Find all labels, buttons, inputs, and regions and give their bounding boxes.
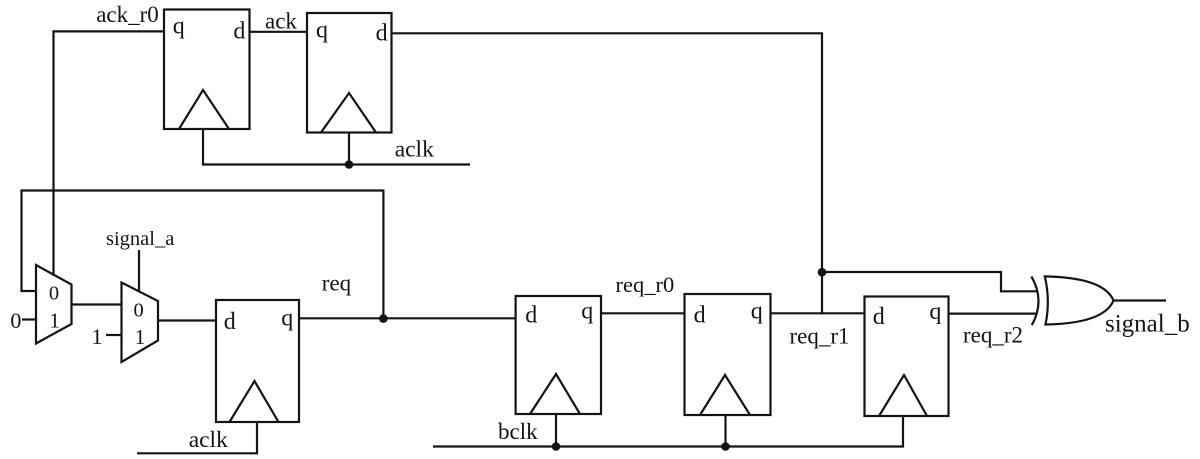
svg-text:1: 1 — [92, 324, 103, 349]
wire signal_b output — [1114, 299, 1167, 301]
svg-text:q: q — [173, 14, 185, 40]
svg-text:q: q — [751, 299, 763, 325]
gate X1 xor body — [1045, 276, 1114, 324]
svg-text:bclk: bclk — [498, 419, 538, 444]
mux M1 body — [36, 265, 72, 344]
wire req_r2 from U6.q to XOR input B — [949, 313, 1038, 315]
wire bclk line — [433, 416, 903, 447]
wire from U2.d right and down to req_r1 node — [392, 33, 823, 314]
node bclk junction dot 1 — [552, 442, 561, 451]
node bclk junction dot 2 — [721, 442, 730, 451]
flip-flop U1 ack_r0 box — [164, 10, 250, 130]
wire aclk bottom: U3 clock stub and line — [137, 422, 257, 453]
svg-text:ack: ack — [265, 9, 297, 34]
svg-text:d: d — [525, 303, 537, 329]
wire U5 clock stub — [724, 415, 726, 447]
flip-flop U3 req box — [216, 300, 299, 422]
svg-text:0: 0 — [49, 282, 59, 304]
svg-text:0: 0 — [10, 308, 21, 333]
svg-text:q: q — [929, 299, 941, 325]
flip-flop U2 clock triangle — [321, 93, 376, 133]
flip-flop U5 clock triangle — [700, 375, 750, 415]
svg-text:req_r1: req_r1 — [790, 323, 850, 348]
svg-text:ack_r0: ack_r0 — [96, 2, 159, 27]
svg-text:req: req — [322, 270, 352, 295]
svg-text:0: 0 — [134, 300, 144, 322]
wire U2 clock stub — [348, 133, 350, 165]
wire signal_a select into M2 — [138, 250, 140, 292]
svg-text:d: d — [233, 18, 245, 44]
svg-text:1: 1 — [135, 325, 146, 349]
svg-text:d: d — [224, 309, 236, 335]
svg-text:q: q — [581, 299, 593, 325]
svg-text:q: q — [281, 305, 293, 331]
gate X1 xor input arc — [1031, 276, 1038, 325]
wire constant 0 stub into M1 input 1 — [22, 318, 36, 320]
svg-text:q: q — [316, 18, 328, 44]
flip-flop U5 req_r1 box — [685, 294, 771, 415]
wire constant 1 stub into M2 input 1 — [106, 334, 122, 336]
svg-text:1: 1 — [49, 309, 60, 333]
svg-text:d: d — [694, 303, 706, 329]
wire ack_r0 from U1.q to mux M1 select — [54, 31, 165, 276]
wire req feedback loop to M1 input 0 — [22, 191, 384, 319]
flip-flop U6 req_r2 box — [865, 297, 949, 417]
wire req from U3.q to U4.d — [299, 317, 516, 319]
wire M1 output to M2 input 0 — [72, 303, 122, 305]
flip-flop U3 clock triangle — [230, 381, 279, 422]
flip-flop U4 clock triangle — [530, 374, 580, 414]
wire req_r0 from U4.q to U5.d — [601, 312, 685, 314]
node aclk junction dot — [345, 160, 354, 169]
svg-text:d: d — [376, 21, 388, 47]
svg-text:aclk: aclk — [189, 427, 228, 453]
mux M2 body — [122, 283, 159, 363]
wire U4 clock stub — [555, 414, 557, 447]
node junction req dot — [379, 314, 388, 323]
svg-text:signal_b: signal_b — [1105, 310, 1190, 337]
wire M2 output to U3.d — [158, 319, 216, 321]
svg-text:signal_a: signal_a — [106, 228, 174, 250]
flip-flop U6 clock triangle — [879, 375, 927, 416]
wire ack between U2.q and U1.d — [250, 31, 308, 33]
node junction req_r1 dot — [818, 268, 827, 277]
flip-flop U4 req_r0 box — [516, 296, 601, 414]
svg-text:d: d — [873, 304, 885, 330]
svg-text:req_r2: req_r2 — [963, 323, 1023, 348]
flip-flop U1 clock triangle — [179, 90, 229, 129]
wire aclk top: U1 clock down, horizontal aclk line — [203, 129, 470, 165]
wire req_r1 tap to XOR input A — [822, 272, 1038, 291]
wire req_r1 from U5.q to U6.d — [771, 312, 865, 314]
flip-flop U2 ack box — [307, 13, 392, 133]
svg-text:aclk: aclk — [395, 136, 434, 162]
svg-text:req_r0: req_r0 — [616, 272, 675, 297]
